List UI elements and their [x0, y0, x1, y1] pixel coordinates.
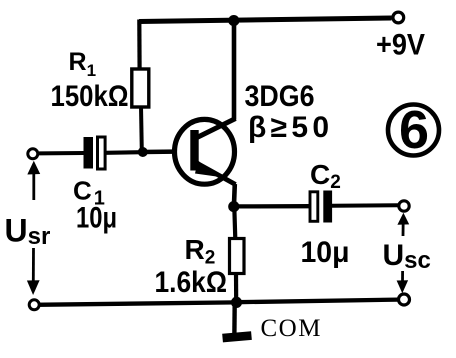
svg-text:3DG6: 3DG6	[245, 80, 315, 113]
wire node to C2	[234, 204, 310, 208]
wire collector to rail	[232, 20, 237, 120]
svg-text:10μ: 10μ	[76, 202, 117, 235]
capacitor C1 left plate	[84, 137, 94, 169]
svg-text:β≥50: β≥50	[248, 111, 329, 144]
arrow Usc bottom head	[397, 280, 409, 293]
svg-text:+9V: +9V	[376, 29, 425, 62]
node top rail junction	[228, 15, 239, 26]
svg-text:COM: COM	[261, 315, 322, 342]
wire R2 bottom lead	[234, 273, 238, 303]
wire C1 to base node	[106, 150, 143, 155]
wire bottom rail left	[35, 302, 236, 304]
svg-text:6: 6	[399, 100, 429, 160]
wire Usr bottom stem	[32, 248, 35, 282]
wire top supply rail	[139, 18, 392, 22]
transistor Q1 body circle	[175, 119, 235, 184]
ground bar COM	[222, 331, 252, 342]
wire C2 to output terminal	[332, 203, 398, 208]
svg-text:Usr: Usr	[5, 213, 51, 251]
transistor Q1 collector stroke	[197, 119, 236, 138]
wire bottom rail right	[237, 300, 399, 303]
capacitor C2 left plate	[310, 192, 318, 222]
svg-text:10μ: 10μ	[301, 236, 350, 269]
arrow Usr bottom head	[27, 280, 40, 295]
svg-text:150kΩ: 150kΩ	[51, 80, 129, 113]
wire Usc bottom stem	[401, 271, 404, 282]
transistor Q1 emitter arrowhead	[195, 161, 217, 177]
wire Usr top stem	[32, 169, 35, 200]
transistor Q1 base bar	[190, 130, 198, 171]
node output junction	[228, 201, 239, 212]
wire R2 top lead	[234, 207, 235, 239]
transistor Q1 emitter stroke	[198, 164, 236, 185]
terminal input bottom	[29, 300, 39, 310]
wire Usc top stem	[402, 220, 405, 236]
wire emitter down	[232, 184, 238, 207]
svg-text:R1: R1	[69, 48, 97, 80]
resistor R1	[132, 69, 149, 107]
wire input to C1	[39, 151, 84, 155]
node base junction	[138, 147, 148, 157]
resistor R2	[230, 239, 245, 274]
ground stem	[232, 303, 237, 334]
badge circle 6	[388, 105, 439, 156]
arrow Usc top head	[397, 213, 409, 225]
svg-text:Usc: Usc	[383, 239, 431, 274]
wire R1 top lead	[137, 20, 142, 71]
svg-text:R2: R2	[185, 234, 216, 269]
svg-text:1.6kΩ: 1.6kΩ	[155, 266, 228, 299]
terminal output bottom	[399, 294, 410, 305]
arrow Usr top head	[27, 161, 40, 175]
wire R1 bottom lead	[139, 106, 144, 151]
capacitor C2 right plate	[323, 191, 332, 223]
terminal input top	[28, 149, 38, 159]
svg-text:C2: C2	[310, 159, 341, 193]
terminal +9V	[393, 12, 404, 23]
node bottom junction	[231, 297, 242, 308]
terminal output top	[399, 201, 409, 211]
capacitor C1 right plate	[98, 137, 106, 169]
wire base lead	[142, 149, 174, 154]
